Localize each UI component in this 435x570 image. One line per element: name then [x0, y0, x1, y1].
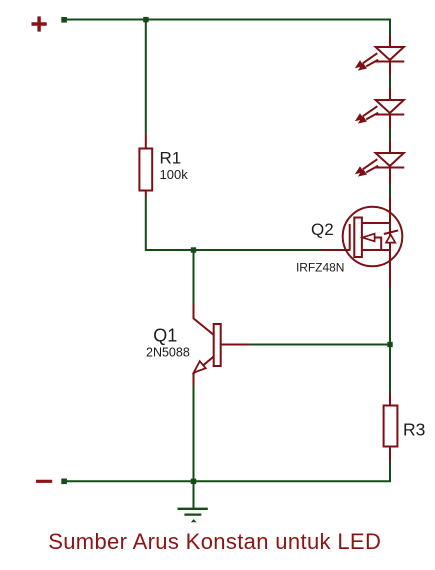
svg-text:R3: R3: [403, 419, 425, 439]
svg-text:2N5088: 2N5088: [146, 346, 190, 360]
wire D3 to Q2 drain: [389, 184, 391, 197]
plus terminal symbol: [32, 16, 47, 31]
transistor Q1: [194, 304, 250, 386]
wire emitter to bottom rail: [193, 386, 195, 482]
wire R1 top: [145, 20, 147, 135]
junction top rail / R1: [143, 17, 148, 22]
svg-text:Q2: Q2: [311, 220, 334, 239]
resistor R1: [139, 134, 152, 197]
negative terminal pin: [61, 479, 67, 485]
resistor R3: [384, 393, 398, 461]
wire D2-D3: [389, 129, 391, 142]
LED D3: [356, 141, 404, 184]
svg-text:Q1: Q1: [153, 326, 177, 346]
svg-text:Sumber Arus Konstan untuk LED: Sumber Arus Konstan untuk LED: [48, 529, 381, 554]
svg-text:IRFZ48N: IRFZ48N: [296, 261, 344, 275]
wire collector drop: [193, 250, 195, 304]
minus terminal symbol: [36, 480, 52, 483]
wire bottom rail: [64, 461, 390, 481]
mosfet Q2: [321, 197, 402, 288]
wire base net: [249, 344, 390, 346]
wire top rail: [64, 20, 390, 36]
svg-text:R1: R1: [160, 148, 182, 167]
junction base net: [387, 342, 392, 347]
LED D2: [356, 88, 404, 129]
ground symbol: [178, 481, 208, 522]
junction gate net / collector: [191, 247, 196, 252]
wire R1 bottom to gate: [146, 197, 321, 250]
junction ground: [191, 479, 196, 484]
positive terminal pin: [61, 17, 67, 23]
svg-text:100k: 100k: [160, 167, 189, 182]
LED D1: [356, 35, 404, 76]
wire D1-D2: [389, 76, 391, 89]
wire Q2 source to base junction and R3: [389, 287, 391, 393]
